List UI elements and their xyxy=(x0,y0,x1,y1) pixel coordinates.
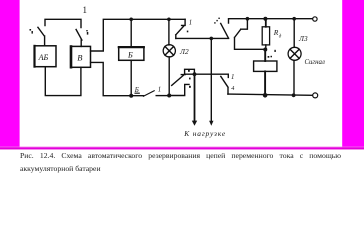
svg-text:К нагрузке: К нагрузке xyxy=(183,129,226,138)
svg-text:АБ: АБ xyxy=(38,53,49,62)
svg-text:4: 4 xyxy=(231,85,234,92)
svg-text:Л3: Л3 xyxy=(298,34,308,43)
svg-text:1: 1 xyxy=(189,19,192,26)
svg-text:1: 1 xyxy=(158,87,161,94)
svg-text:д: д xyxy=(279,35,282,40)
svg-text:В: В xyxy=(77,53,82,63)
svg-text:Б: Б xyxy=(127,51,133,60)
svg-text:1: 1 xyxy=(231,74,234,81)
svg-text:Л2: Л2 xyxy=(179,47,189,56)
svg-text:Б: Б xyxy=(134,87,139,94)
svg-text:1: 1 xyxy=(83,5,88,15)
svg-text:Сигнал: Сигнал xyxy=(305,59,325,66)
